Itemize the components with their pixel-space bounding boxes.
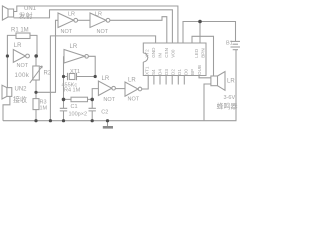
svg-text:IN: IN [157,53,162,58]
crystal XT1 leads [64,76,96,78]
resistor R1 leads [7,35,37,56]
wire gate U3 input down to UN2 [6,56,8,88]
node dot C2 rail [91,119,94,122]
wire ground riser W1 [50,36,155,121]
wire osc out column [89,56,96,76]
svg-text:UN1: UN1 [24,6,37,12]
node dot R3 rail [34,119,37,122]
svg-text:UN2: UN2 [15,87,28,93]
wire UN2 bottom to rail [3,96,10,120]
svg-text:LR: LR [14,43,22,49]
svg-text:R1 1M: R1 1M [11,28,29,34]
svg-text:NOT: NOT [103,97,115,103]
node dot R2 R3 UN2 [34,91,37,94]
wire IC pin to speaker [199,76,211,78]
svg-text:LR: LR [102,76,110,82]
speaker LR body [211,76,218,86]
svg-text:1M: 1M [40,106,48,112]
speaker LR cone [218,72,226,91]
node dot R4 left [62,98,66,102]
svg-text:BPN: BPN [200,48,205,57]
svg-text:GND: GND [151,47,156,58]
svg-text:LR: LR [68,11,75,17]
svg-text:蜂鸣器: 蜂鸣器 [217,102,238,111]
svg-text:LED: LED [194,48,199,58]
resistor R4 [71,97,88,102]
crystal XT1 body [69,74,75,80]
resistor R4 leads [64,98,93,100]
crystal XT1 left plate [67,73,69,80]
svg-text:D4: D4 [157,69,162,75]
IC notch [143,53,148,62]
svg-text:D3: D3 [164,69,169,75]
transducer UN2 cone [2,85,7,99]
wire UN1 bottom to IC pin [14,10,173,43]
IC bottom pin stubs [154,76,184,85]
capacitor C2 bottom lead [91,111,93,121]
crystal XT1 right plate [76,73,78,80]
svg-text:100p×2: 100p×2 [69,111,88,117]
svg-text:R2: R2 [44,71,52,77]
svg-text:LR: LR [227,79,235,85]
wire IC pin to battery line [183,22,236,44]
IC body [143,43,206,76]
node dot xtal left [62,75,65,78]
svg-text:LR: LR [128,78,136,84]
svg-text:V00: V00 [170,49,175,58]
transducer UN1 body [8,9,14,17]
svg-text:BP: BP [190,69,195,75]
svg-text:D2: D2 [170,69,175,75]
potentiometer R2 arrow [30,66,43,83]
capacitor C2 plates [89,108,96,111]
wire IC pin to speaker top [192,36,214,76]
resistor R3 leads [35,92,37,120]
capacitor C1 plates [60,108,67,111]
node dot C1 rail [62,119,65,122]
wire top rail [14,6,178,43]
inverter U6 osc [64,50,85,64]
wire gate U2 out to IC pin [110,17,167,43]
svg-text:XT2: XT2 [144,49,149,58]
wire IC pin battery node [199,22,201,44]
wire receive column to top gate [36,20,58,92]
svg-text:NOT: NOT [128,97,140,103]
battery B1 long plate 1 [231,40,241,42]
svg-text:CSN: CSN [164,48,169,58]
capacitor C1 bottom lead [63,111,65,121]
svg-text:OUB: OUB [197,65,202,75]
node dot R4 right [90,98,94,102]
wire gate U4 out to U5 in [116,88,126,90]
node dot ground rail [106,119,109,122]
resistor R1 [16,33,30,39]
resistor R3 [33,99,39,110]
svg-text:100k: 100k [15,72,30,79]
inverter U4 [98,81,111,96]
node dot battery top [198,20,202,24]
svg-text:NOT: NOT [61,29,73,35]
node dot xtal right [94,75,97,78]
svg-text:R4 1M: R4 1M [64,87,81,93]
ground bar [103,126,113,129]
svg-text:C2: C2 [101,109,108,115]
node dot gate U3 out [34,54,38,58]
battery B1 short plate 2 [233,49,238,51]
battery B1 short plate 1 [233,43,238,45]
node dot W1 rail [49,119,52,122]
wire C2 node [92,89,98,109]
wire gate U5 out to IC pin [142,76,148,90]
node dot gate U3 in [6,54,9,57]
transducer UN1 cone [2,6,8,20]
wire U1 out to U2 in [78,19,90,21]
inverter U1 top [58,13,74,28]
svg-text:3-6V: 3-6V [224,95,236,101]
svg-text:XT1: XT1 [144,66,149,75]
transducer UN2 body [7,88,12,97]
svg-text:发射: 发射 [19,11,33,20]
ground stub [107,121,109,127]
battery B1 long plate 2 [231,46,241,48]
svg-text:D1: D1 [177,69,182,75]
svg-text:XT1: XT1 [70,69,80,75]
svg-text:LR: LR [95,11,102,17]
svg-text:LR: LR [70,44,78,50]
svg-text:B1: B1 [226,41,233,47]
svg-text:D0: D0 [183,69,188,75]
svg-text:S4: S4 [151,69,156,75]
svg-text:NOT: NOT [97,29,109,35]
svg-text:接收: 接收 [13,95,27,104]
wire osc input column [64,56,65,108]
wire speaker bottom to rail [204,84,211,121]
svg-text:C1: C1 [71,104,78,110]
inverter U2 top [90,13,106,28]
potentiometer R2 leads [35,56,37,92]
potentiometer R2 [33,66,40,80]
inverter U3 receiver [13,50,25,63]
wire bottom rail [3,50,236,121]
svg-text:NOT: NOT [17,63,29,69]
inverter U5 [125,82,138,96]
